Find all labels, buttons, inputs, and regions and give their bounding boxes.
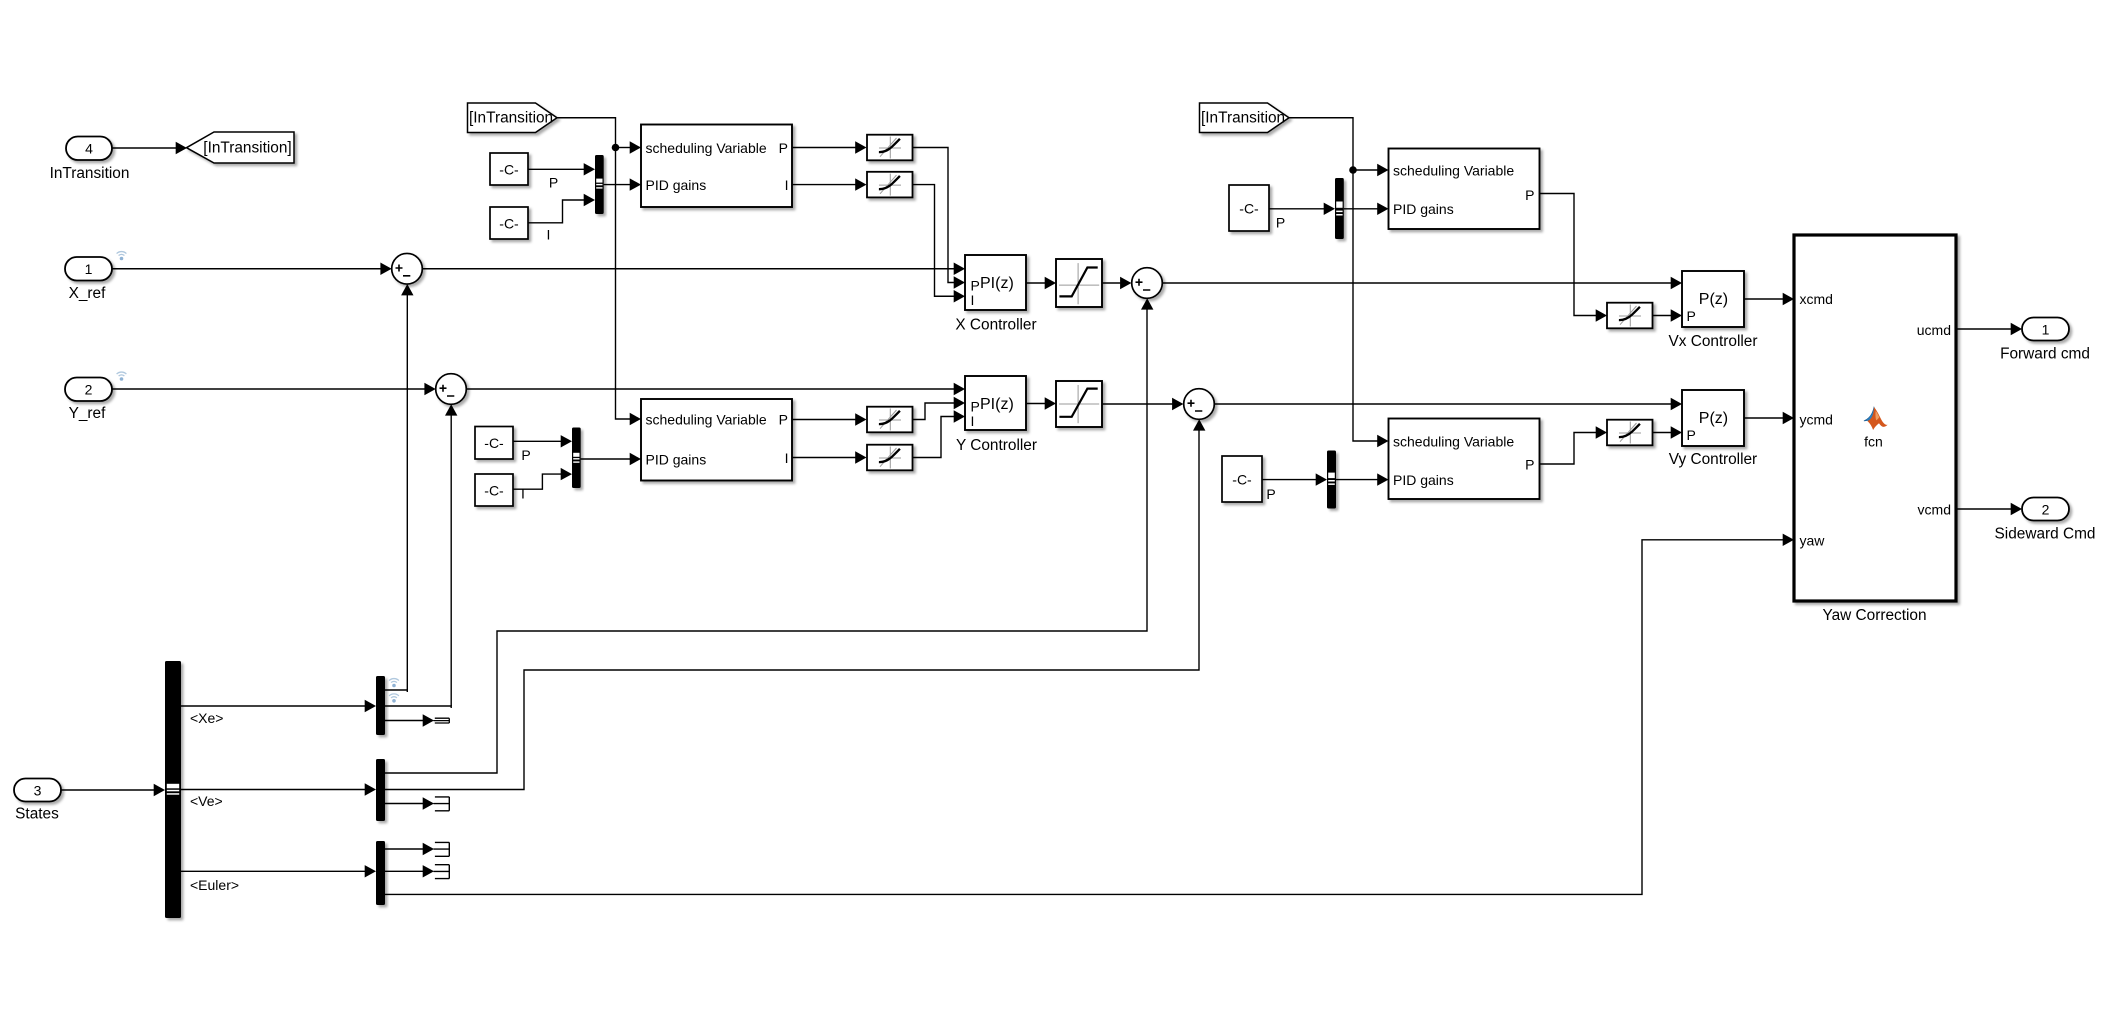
- svg-text:-C-: -C-: [1239, 200, 1259, 216]
- wire Vy sched P out to rate limiter 6: [1540, 433, 1597, 465]
- goto tag [InTransition]: [187, 132, 295, 163]
- svg-text:States: States: [15, 805, 59, 822]
- svg-text:PI(z): PI(z): [980, 396, 1014, 413]
- svg-text:P: P: [549, 174, 558, 190]
- svg-text:Yaw Correction: Yaw Correction: [1822, 607, 1926, 624]
- rate limiter RL4: [867, 445, 913, 471]
- saturation1: [1056, 259, 1102, 307]
- svg-text:P: P: [521, 447, 530, 463]
- Yaw Correction MATLAB Function block: [1794, 235, 1956, 601]
- wire selector2 vz to terminator2: [385, 803, 423, 805]
- svg-text:P(z): P(z): [1699, 291, 1728, 308]
- svg-text:X_ref: X_ref: [69, 285, 107, 302]
- rate limiter RL6: [1607, 420, 1653, 446]
- svg-text:4: 4: [85, 140, 93, 156]
- logging badge Y_ref: [117, 372, 127, 381]
- wire mux1 to PID gains: [604, 184, 630, 186]
- bus selector bar: [165, 661, 181, 918]
- outport 2 Sideward Cmd: [2022, 498, 2069, 521]
- wire RL4 to Y Controller I input: [913, 417, 955, 458]
- wire Y Controller to saturation2: [1026, 403, 1045, 405]
- svg-text:P: P: [1276, 214, 1285, 230]
- wire selector2 vx to sum3 (long route): [385, 309, 1147, 773]
- wire Yaw Correction vcmd to outport 2: [1958, 508, 2012, 510]
- wire X Controller to saturation1: [1026, 282, 1045, 284]
- wire port4 to Goto: [112, 147, 176, 149]
- sum1 (X position error): [392, 253, 423, 284]
- svg-text:PID gains: PID gains: [1393, 472, 1454, 488]
- svg-text:ucmd: ucmd: [1917, 322, 1951, 338]
- wire mux3 to PID gains: [1344, 208, 1378, 210]
- rate limiter RL2: [867, 172, 913, 198]
- svg-text:ycmd: ycmd: [1800, 411, 1833, 427]
- wire feedback up into sum1: [406, 295, 408, 691]
- mux1 (X gains): [595, 155, 604, 214]
- svg-text:[InTransition: [InTransition: [1201, 110, 1285, 127]
- svg-text:PI(z): PI(z): [980, 275, 1014, 292]
- wire junction down to Y scheduling input: [616, 148, 631, 420]
- svg-text:P: P: [1525, 456, 1534, 472]
- Vy Controller P(z): [1682, 390, 1744, 446]
- wire <Ve> to selector2: [181, 789, 365, 791]
- rate limiter RL1: [867, 135, 913, 161]
- svg-text:2: 2: [85, 382, 93, 398]
- constant -C- (Y I gain): [475, 474, 513, 506]
- svg-text:-C-: -C-: [484, 435, 504, 451]
- mux3 (Vx gains): [1335, 178, 1344, 239]
- inport 3 States: [14, 779, 61, 802]
- wire junction to scheduling Variable input: [616, 147, 631, 149]
- svg-text:<Ve>: <Ve>: [190, 793, 223, 809]
- wire -C- P to mux1: [528, 168, 584, 170]
- wire -C- I to mux1: [528, 200, 584, 223]
- svg-text:<Xe>: <Xe>: [190, 710, 223, 726]
- svg-text:I: I: [521, 485, 525, 501]
- constant -C- (Y P gain): [475, 427, 513, 460]
- svg-text:I: I: [971, 413, 975, 429]
- svg-text:PID gains: PID gains: [646, 451, 707, 467]
- svg-text:Forward cmd: Forward cmd: [2000, 345, 2090, 362]
- svg-text:xcmd: xcmd: [1800, 291, 1833, 307]
- svg-text:scheduling Variable: scheduling Variable: [1393, 162, 1514, 178]
- constant -C- (Vx P gain): [1229, 185, 1269, 231]
- wire Vx Controller to Yaw Correction xcmd: [1744, 298, 1783, 300]
- wire from-tag-2 to junction2: [1289, 118, 1353, 170]
- svg-text:<Euler>: <Euler>: [190, 877, 239, 893]
- wire junction2 down to Vy scheduling input: [1353, 170, 1378, 441]
- svg-text:InTransition: InTransition: [50, 165, 130, 182]
- svg-text:Y_ref: Y_ref: [69, 405, 107, 422]
- mux2 (Y gains): [572, 428, 581, 489]
- svg-text:P: P: [1687, 308, 1696, 324]
- wire RL1 to X Controller P input: [913, 148, 955, 283]
- Vx Controller P(z): [1682, 271, 1744, 327]
- inport 2 Y_ref: [65, 378, 112, 402]
- constant -C- (X I gain): [490, 207, 528, 239]
- svg-text:I: I: [547, 227, 551, 243]
- wire sum1 to X Controller: [422, 268, 954, 270]
- wire -C- to mux3: [1269, 208, 1324, 210]
- logging badge X_ref: [117, 252, 127, 261]
- svg-text:vcmd: vcmd: [1918, 502, 1951, 518]
- wire selector3 yaw to Yaw Correction (long route): [385, 540, 1783, 895]
- svg-text:Vx Controller: Vx Controller: [1669, 333, 1758, 350]
- Vy scheduling subsystem: [1389, 419, 1540, 500]
- Y Controller PID block: [965, 376, 1026, 430]
- svg-text:I: I: [971, 292, 975, 308]
- from tag [InTransition] (left): [468, 103, 558, 133]
- svg-text:P: P: [1266, 486, 1275, 502]
- wire Vx sched P out to rate limiter 5: [1540, 194, 1597, 316]
- selector3 (Euler): [376, 841, 385, 905]
- svg-text:1: 1: [2042, 321, 2050, 337]
- sum4 (Y velocity error): [1184, 389, 1215, 420]
- wire Y sched I out to rate limiter 4: [792, 457, 856, 459]
- junction2 dot: [1349, 166, 1357, 174]
- wire selector3 roll to terminator3: [385, 848, 423, 850]
- wire sum2 to Y Controller: [466, 388, 954, 390]
- wire RL5 to Vx Controller P input: [1653, 315, 1672, 317]
- svg-text:yaw: yaw: [1800, 532, 1826, 548]
- outport 1 Forward cmd: [2022, 318, 2069, 341]
- wire -C- I to mux2: [513, 474, 561, 489]
- wire RL3 to Y Controller P input: [913, 403, 955, 420]
- svg-text:fcn: fcn: [1864, 433, 1883, 449]
- MATLAB fcn logo: [1864, 407, 1888, 430]
- svg-text:Y Controller: Y Controller: [956, 437, 1037, 454]
- wire Y sched P out to rate limiter 3: [792, 419, 856, 421]
- wire X sched I out to rate limiter 2: [792, 184, 856, 186]
- svg-text:[InTransition]: [InTransition]: [203, 140, 291, 157]
- terminator2: [434, 797, 450, 811]
- terminator4: [434, 865, 450, 879]
- svg-text:-C-: -C-: [484, 482, 504, 498]
- wire sum3 to Vx Controller: [1162, 282, 1671, 284]
- wire feedback up into sum2: [450, 415, 452, 706]
- sum3 (X velocity error): [1132, 268, 1163, 299]
- rate limiter RL5: [1607, 303, 1653, 329]
- svg-text:PID gains: PID gains: [1393, 201, 1454, 217]
- wire junction2 to Vx scheduling input: [1353, 169, 1378, 171]
- svg-text:P: P: [1687, 427, 1696, 443]
- wire -C- P to mux2: [513, 440, 561, 442]
- svg-text:Sideward Cmd: Sideward Cmd: [1995, 525, 2096, 542]
- wire -C- to mux4: [1262, 479, 1316, 481]
- constant -C- (Vy P gain): [1222, 456, 1262, 502]
- terminator3: [434, 842, 450, 856]
- wire X_ref to sum1: [112, 268, 381, 270]
- svg-text:P: P: [779, 411, 788, 427]
- terminator1: [434, 718, 450, 723]
- wire RL2 to X Controller I input: [913, 185, 955, 297]
- rate limiter RL3: [867, 407, 913, 433]
- wire States to bus selector: [61, 789, 154, 791]
- svg-text:-C-: -C-: [499, 215, 519, 231]
- svg-text:PID gains: PID gains: [646, 177, 707, 193]
- wire selector2 vy to sum4 (long route): [385, 430, 1199, 790]
- wire selector1 ze to terminator1: [385, 720, 423, 722]
- svg-text:1: 1: [85, 261, 93, 277]
- Y scheduling subsystem: [641, 399, 792, 481]
- selector1 (Xe): [376, 676, 385, 735]
- svg-text:I: I: [785, 177, 789, 193]
- wire <Euler> to selector3: [181, 870, 365, 872]
- sum2 (Y position error): [436, 374, 467, 405]
- svg-text:-C-: -C-: [1232, 471, 1252, 487]
- svg-text:scheduling Variable: scheduling Variable: [646, 140, 767, 156]
- svg-text:[InTransition: [InTransition: [469, 110, 553, 127]
- wire <Xe> to selector1: [181, 705, 365, 707]
- svg-text:P: P: [779, 140, 788, 156]
- svg-text:P(z): P(z): [1699, 410, 1728, 427]
- wire Y_ref to sum2: [112, 388, 425, 390]
- svg-text:P: P: [1525, 187, 1534, 203]
- svg-text:3: 3: [34, 782, 42, 798]
- wire Vy Controller to Yaw Correction ycmd: [1744, 417, 1783, 419]
- wire RL6 to Vy Controller P input: [1653, 432, 1672, 434]
- svg-text:I: I: [785, 450, 789, 466]
- wire selector1 ye to sum2 (up): [385, 706, 451, 708]
- svg-text:Vy Controller: Vy Controller: [1669, 451, 1757, 468]
- wire sum4 to Vy Controller: [1214, 403, 1671, 405]
- wire X sched P out to rate limiter 1: [792, 147, 856, 149]
- X scheduling subsystem: [641, 125, 792, 208]
- wire mux4 to PID gains: [1336, 479, 1378, 481]
- wire saturation2 to sum4: [1102, 403, 1172, 405]
- wire saturation1 to sum3: [1102, 282, 1120, 284]
- wire selector1 xe to sum1 (up): [385, 690, 407, 692]
- constant -C- (X P gain): [490, 153, 528, 185]
- inport 1 X_ref: [65, 257, 112, 281]
- svg-text:2: 2: [2042, 501, 2050, 517]
- wire mux2 to PID gains: [581, 458, 630, 460]
- inport 4 InTransition: [66, 137, 112, 161]
- wire from-tag-1 to junction: [557, 118, 616, 148]
- from tag [InTransition] (right): [1200, 103, 1290, 133]
- wire Ve feedback up into sum4: [1193, 419, 1205, 430]
- svg-text:-C-: -C-: [499, 161, 519, 177]
- svg-text:X Controller: X Controller: [955, 317, 1036, 334]
- mux4 (Vy gains): [1327, 451, 1336, 509]
- selector2 (Ve): [376, 759, 385, 821]
- wire Ve feedback up into sum3: [1141, 298, 1153, 309]
- svg-text:scheduling Variable: scheduling Variable: [646, 411, 767, 427]
- X Controller PID block: [965, 255, 1026, 310]
- junction dot: [612, 144, 620, 152]
- Vx scheduling subsystem: [1389, 149, 1540, 230]
- wire selector3 pitch to terminator4: [385, 870, 423, 872]
- logging badges on selector1: [389, 679, 399, 688]
- svg-text:scheduling Variable: scheduling Variable: [1393, 433, 1514, 449]
- wire Yaw Correction ucmd to outport 1: [1958, 328, 2012, 330]
- saturation2: [1056, 381, 1102, 427]
